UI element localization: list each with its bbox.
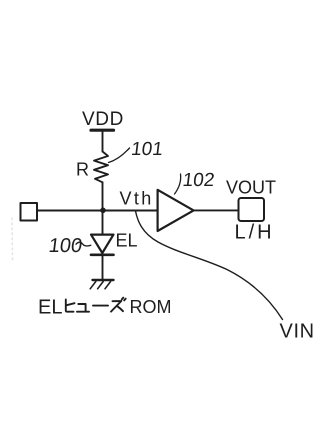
node junction dot Vth — [100, 208, 106, 214]
svg-text:VDD: VDD — [82, 109, 124, 130]
leader line to 101 — [109, 148, 130, 163]
wire resistor to node — [102, 182, 104, 210]
ref numeral 100 — [47, 235, 83, 257]
caption katakana ZU — [111, 298, 126, 312]
resistor R (101) zigzag — [94, 152, 108, 183]
caption katakana long dash — [93, 305, 108, 307]
wire horizontal node rail — [37, 210, 158, 212]
ref numeral 101 — [130, 139, 164, 160]
power rail VDD bar — [91, 129, 114, 132]
svg-text:102: 102 — [181, 170, 215, 191]
ground hatch slashes — [90, 282, 110, 289]
leader line to 102 — [175, 174, 181, 194]
svg-text:VIN: VIN — [280, 321, 315, 343]
wire VDD bar to resistor — [102, 132, 104, 152]
svg-text:101: 101 — [130, 139, 164, 160]
scan noise trail left — [11, 218, 14, 261]
svg-text:VOUT: VOUT — [226, 178, 276, 198]
terminal box VOUT — [239, 198, 265, 221]
wire EL element to ground — [102, 255, 104, 280]
svg-text:L/H: L/H — [235, 222, 275, 244]
ground bar — [93, 279, 114, 281]
leader squiggle to 100 — [76, 242, 91, 246]
svg-text:100: 100 — [47, 235, 83, 257]
VIN leader curve — [136, 211, 283, 320]
EL element cathode bar — [91, 254, 114, 257]
svg-text:EL: EL — [38, 297, 62, 319]
caption katakana HI — [66, 300, 75, 312]
EL element 100 diode triangle — [91, 235, 114, 253]
svg-text:Vth: Vth — [120, 189, 154, 209]
wire node to EL element — [102, 211, 104, 235]
svg-text:R: R — [76, 160, 89, 180]
caption katakana small YU — [77, 304, 89, 312]
terminal square pad left — [21, 203, 38, 221]
ref numeral 102 — [181, 170, 215, 191]
wire buffer output to VOUT box — [194, 209, 238, 211]
op-amp buffer 102 triangle — [158, 190, 194, 231]
svg-text:ROM: ROM — [130, 297, 172, 317]
svg-text:EL: EL — [116, 231, 138, 251]
